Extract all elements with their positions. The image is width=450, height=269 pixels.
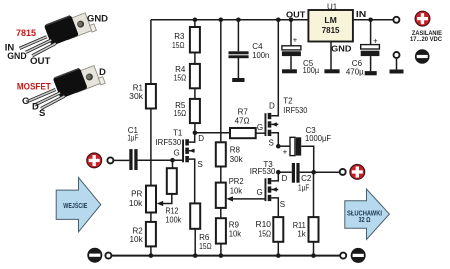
svg-text:PR: PR xyxy=(131,190,142,199)
ground U1 xyxy=(324,69,339,73)
svg-text:1µF: 1µF xyxy=(127,134,138,143)
wire R10 to rail xyxy=(277,242,279,256)
wire IN segment xyxy=(353,19,393,21)
svg-text:D: D xyxy=(198,134,204,143)
svg-text:WEJŚCIE: WEJŚCIE xyxy=(63,201,87,210)
resistor R2 10k xyxy=(146,222,156,247)
svg-text:1µF: 1µF xyxy=(298,183,309,192)
svg-text:OUT: OUT xyxy=(286,9,306,19)
wire input to C1 xyxy=(114,159,130,161)
capacitor C1 1uF xyxy=(129,149,137,170)
node T1 drain xyxy=(193,131,198,136)
capacitor C3 1000uF xyxy=(283,137,302,156)
svg-text:LM: LM xyxy=(324,15,337,25)
svg-text:MOSFET: MOSFET xyxy=(17,81,51,92)
wiper arrow PR2 to T3 gate xyxy=(226,196,264,201)
svg-text:+: + xyxy=(283,147,288,156)
svg-text:R8: R8 xyxy=(230,145,241,154)
svg-text:15Ω: 15Ω xyxy=(259,230,272,239)
svg-text:G: G xyxy=(22,96,29,107)
capacitor C2 1uF xyxy=(292,163,300,183)
svg-text:IRF530: IRF530 xyxy=(250,167,276,176)
svg-text:U1: U1 xyxy=(327,2,338,11)
svg-text:10k: 10k xyxy=(130,235,144,244)
node T3 drain xyxy=(276,170,281,175)
svg-text:GND: GND xyxy=(87,14,108,25)
svg-text:T2: T2 xyxy=(283,96,293,105)
svg-text:R12: R12 xyxy=(166,206,179,215)
transistor T3 IRF530 xyxy=(265,172,279,217)
svg-text:S: S xyxy=(197,160,202,169)
node gate T1 xyxy=(170,158,175,163)
ground C5 xyxy=(282,69,297,73)
terminal minus input xyxy=(87,248,102,263)
7815 package illustration (TO-220) xyxy=(20,8,97,55)
svg-text:+: + xyxy=(293,36,298,45)
wire T3 drain to C2 xyxy=(278,171,292,173)
wiper arrow PR wire R12 xyxy=(157,194,172,206)
regulator U1 LM7815 xyxy=(308,10,353,42)
resistor R11 1k xyxy=(309,217,319,242)
svg-text:R6: R6 xyxy=(199,233,210,242)
capacitor C4 100n xyxy=(229,20,249,78)
svg-text:D: D xyxy=(269,101,275,110)
svg-text:10k: 10k xyxy=(129,199,143,208)
svg-text:47Ω: 47Ω xyxy=(235,116,250,125)
svg-text:G: G xyxy=(257,123,263,132)
svg-text:32 Ω: 32 Ω xyxy=(359,217,371,224)
wire R9 to rail xyxy=(220,244,222,256)
svg-text:15Ω: 15Ω xyxy=(172,41,185,50)
node R3 top xyxy=(193,18,198,23)
svg-text:7815: 7815 xyxy=(16,28,37,39)
svg-text:R3: R3 xyxy=(174,32,185,41)
svg-text:G: G xyxy=(174,149,180,158)
transistor T2 IRF530 xyxy=(265,20,279,146)
svg-text:15Ω: 15Ω xyxy=(174,74,187,83)
svg-text:17...20 VDC: 17...20 VDC xyxy=(410,37,443,43)
resistor R9 10k xyxy=(216,218,226,243)
wire R8 to PR2 xyxy=(220,167,222,183)
resistor R12 100k xyxy=(167,160,177,194)
wire top rail xyxy=(151,19,309,21)
ground C6 xyxy=(365,71,377,75)
wire T1 drain to R7 xyxy=(195,132,230,134)
svg-text:IRF530: IRF530 xyxy=(156,138,182,147)
wire C2 to output node xyxy=(300,171,340,173)
terminal minus power xyxy=(415,49,430,64)
svg-text:D: D xyxy=(282,174,288,183)
resistor R5 15ohm xyxy=(190,99,200,123)
node rail R2 xyxy=(149,253,154,258)
wire R11 column xyxy=(313,172,315,217)
wire R11 to rail xyxy=(313,242,315,256)
svg-text:100k: 100k xyxy=(166,216,183,225)
wire C1 to gate node xyxy=(138,159,183,161)
svg-text:C2: C2 xyxy=(301,174,312,183)
resistor R7 47ohm xyxy=(230,128,256,138)
svg-text:+: + xyxy=(373,36,378,45)
svg-text:R9: R9 xyxy=(229,220,240,229)
node rail R10 xyxy=(276,253,281,258)
arrow WEJSCIE xyxy=(56,178,101,232)
node output xyxy=(311,170,316,175)
node C4 top xyxy=(236,18,241,23)
svg-text:15Ω: 15Ω xyxy=(174,109,187,118)
svg-text:10k: 10k xyxy=(229,230,242,239)
svg-text:IRF530: IRF530 xyxy=(283,106,308,115)
node C5 top xyxy=(289,18,294,23)
svg-text:S: S xyxy=(39,108,45,119)
resistor R4 15ohm xyxy=(190,64,200,88)
terminal ring output plus xyxy=(340,169,346,175)
resistor R6 15ohm xyxy=(190,203,200,228)
wire R2 to rail xyxy=(150,246,152,255)
terminal ring output minus xyxy=(340,253,346,259)
wire U1 gnd xyxy=(330,42,332,70)
ground power minus xyxy=(390,70,404,74)
wire R7 to T2 gate xyxy=(256,132,265,134)
svg-text:30k: 30k xyxy=(129,92,144,101)
node R8 top rail xyxy=(219,18,224,23)
node rail R6 xyxy=(193,253,198,258)
svg-text:OUT: OUT xyxy=(30,56,51,67)
wire R3 column xyxy=(194,20,196,133)
terminal ring input minus xyxy=(105,253,111,259)
capacitor C5 100u xyxy=(282,20,301,70)
wire C3 to output node xyxy=(301,146,314,172)
terminal plus power xyxy=(415,11,430,26)
node rail R11 xyxy=(311,253,316,258)
wire bottom rail xyxy=(112,255,340,257)
terminal minus output xyxy=(351,248,366,263)
svg-text:R7: R7 xyxy=(238,107,249,116)
resistor R10 15ohm xyxy=(273,217,283,242)
svg-text:C4: C4 xyxy=(252,42,263,51)
resistor R1 30k xyxy=(146,84,156,109)
terminal ring input plus xyxy=(107,157,113,163)
svg-text:D: D xyxy=(32,102,39,113)
wire power minus to ground xyxy=(396,59,398,70)
capacitor C6 470u xyxy=(361,20,380,71)
wire T2 source to C3 xyxy=(278,145,290,147)
ground C4 xyxy=(232,78,244,82)
terminal plus output xyxy=(350,165,365,180)
svg-text:30k: 30k xyxy=(230,155,244,164)
svg-text:R10: R10 xyxy=(256,220,272,229)
svg-text:D: D xyxy=(99,67,106,78)
potentiometer PR 10k xyxy=(146,186,156,213)
node C6 top xyxy=(368,18,373,23)
svg-text:100µ: 100µ xyxy=(303,66,320,75)
node T2 source xyxy=(276,144,281,149)
resistor R8 30k xyxy=(216,142,226,166)
node T2 drain rail xyxy=(276,18,281,23)
svg-text:T1: T1 xyxy=(173,128,183,137)
svg-text:1000µF: 1000µF xyxy=(305,134,331,143)
transistor T1 IRF530 xyxy=(182,133,195,204)
svg-text:PR2: PR2 xyxy=(229,177,244,186)
arrow SLUCHAWKI xyxy=(345,189,390,239)
MOSFET package illustration (TO-220) xyxy=(28,61,105,108)
wire R6 to rail xyxy=(194,229,196,256)
svg-text:15Ω: 15Ω xyxy=(199,242,212,251)
svg-text:1k: 1k xyxy=(297,230,306,239)
svg-text:IN: IN xyxy=(356,9,366,19)
svg-text:GND: GND xyxy=(7,51,27,62)
terminal plus input xyxy=(87,153,102,168)
svg-text:100n: 100n xyxy=(252,51,269,60)
wire PR2 to R9 xyxy=(220,208,222,218)
node rail R9 xyxy=(219,253,224,258)
wire R1 column xyxy=(150,20,152,186)
wire R8 column top xyxy=(220,20,222,143)
svg-text:S: S xyxy=(280,200,285,209)
svg-text:7815: 7815 xyxy=(322,25,340,35)
terminal ring power plus xyxy=(393,17,399,23)
svg-text:GND: GND xyxy=(331,44,351,54)
resistor R3 15ohm xyxy=(190,27,200,53)
potentiometer PR2 10k xyxy=(216,183,226,208)
svg-text:G: G xyxy=(257,188,263,197)
wire PR to R2 xyxy=(150,213,152,222)
svg-text:S: S xyxy=(269,139,274,148)
terminal ring power minus xyxy=(394,52,400,58)
svg-text:10k: 10k xyxy=(230,187,243,196)
svg-text:470µ: 470µ xyxy=(346,67,364,76)
